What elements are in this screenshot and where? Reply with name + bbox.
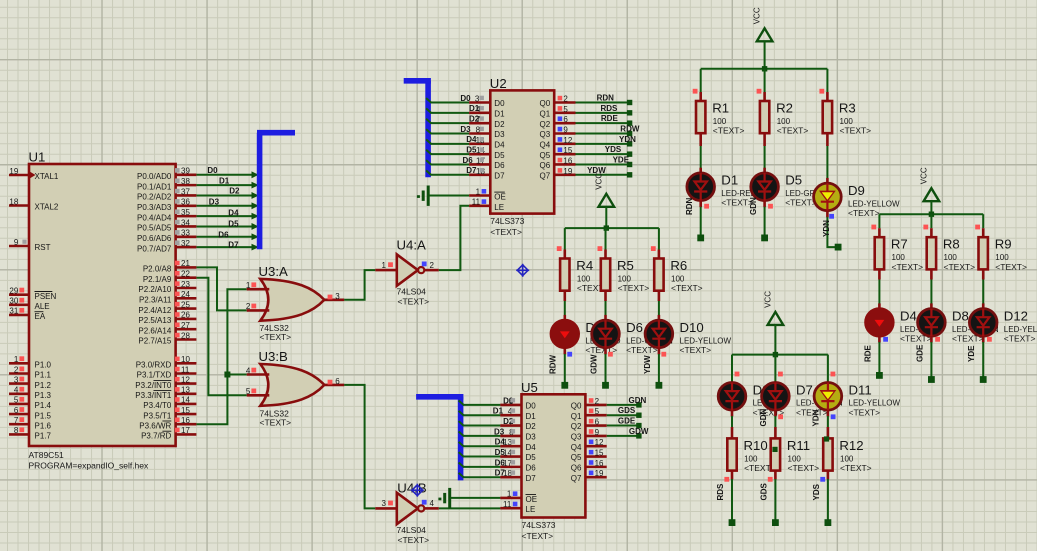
U5 pin Q4 (585, 445, 606, 448)
U2 pin Q5 (554, 153, 575, 156)
svg-text:6: 6 (563, 115, 568, 124)
svg-text:<TEXT>: <TEXT> (848, 208, 880, 218)
U5 pin Q5 (585, 455, 606, 458)
LED diode symbol (769, 383, 782, 411)
wire D9 cathode to terminal (826, 211, 829, 218)
svg-text:29: 29 (9, 287, 18, 296)
svg-text:RDE: RDE (601, 114, 619, 123)
U1 pin 30 ALE (9, 303, 29, 306)
U1 pin 36 P0.3/AD3 (176, 204, 197, 207)
wire R2 to D5 (763, 133, 766, 146)
wire rail to R6 (658, 228, 660, 249)
svg-text:12: 12 (563, 136, 572, 145)
svg-text:R4: R4 (576, 258, 593, 273)
svg-text:D3: D3 (526, 432, 537, 441)
svg-text:P2.1/A9: P2.1/A9 (143, 275, 172, 284)
svg-text:P1.4: P1.4 (35, 401, 52, 410)
U1 pin 27 P2.6/A14 (176, 328, 197, 331)
svg-text:12: 12 (595, 438, 604, 447)
wire bus to U5 D0 (463, 404, 500, 406)
terminal YDW (656, 382, 663, 389)
svg-text:R7: R7 (891, 237, 908, 252)
wire D11 cathode to R12 (827, 410, 830, 416)
svg-text:R1: R1 (712, 101, 729, 116)
U1 pin 1 P1.0 (9, 362, 29, 365)
svg-text:P0.0/AD0: P0.0/AD0 (137, 172, 172, 181)
U5 pin OE (500, 497, 521, 500)
svg-text:D2: D2 (229, 187, 240, 196)
svg-text:31: 31 (9, 307, 18, 316)
svg-text:P0.3/AD3: P0.3/AD3 (137, 203, 172, 212)
U5 Q1 net wire GDS (607, 414, 637, 416)
svg-text:P3.2/INT0: P3.2/INT0 (135, 381, 172, 390)
wire D10 cathode to terminal YDW (658, 348, 661, 355)
svg-text:YDW: YDW (643, 355, 652, 374)
svg-text:P3.5/T1: P3.5/T1 (143, 411, 172, 420)
svg-text:U2: U2 (490, 76, 507, 91)
wire U4:A output to U2 LE (439, 206, 469, 270)
LED circle (off) (751, 173, 779, 201)
wire rail to R9 (982, 214, 984, 228)
svg-text:D3: D3 (209, 198, 220, 207)
svg-text:13: 13 (181, 386, 190, 395)
LED diode symbol (821, 383, 834, 411)
svg-text:Q4: Q4 (540, 140, 551, 149)
U4:A output stub (424, 269, 439, 272)
svg-text:P0.5/AD5: P0.5/AD5 (137, 224, 172, 233)
svg-text:5: 5 (14, 396, 19, 405)
LED diode symbol (652, 320, 665, 348)
svg-text:D12: D12 (1004, 308, 1028, 323)
LED diode symbol (977, 309, 990, 337)
svg-text:GDS: GDS (760, 483, 769, 501)
resistor R7 body (875, 237, 884, 269)
ground symbol at U5 OE (448, 488, 451, 508)
wire R8 to D8 (930, 269, 933, 279)
svg-text:D11: D11 (849, 382, 872, 397)
wire rail to R4 (564, 228, 566, 249)
svg-text:GDN: GDN (759, 409, 768, 427)
svg-text:D6: D6 (526, 463, 537, 472)
U2 pin D1 (469, 112, 490, 115)
junction east rail (929, 212, 934, 217)
svg-text:LE: LE (526, 505, 536, 514)
wire D3 net (U1 P0.3 to data bus) (196, 205, 253, 207)
U4:B inversion bubble (418, 505, 424, 511)
svg-text:U1: U1 (29, 150, 46, 165)
svg-text:<TEXT>: <TEXT> (713, 126, 745, 136)
svg-text:11: 11 (181, 365, 190, 374)
U2 Q3 net wire RDW (576, 132, 628, 134)
svg-text:GDN: GDN (629, 396, 647, 405)
U1 pin 12 P3.2/INT0 (176, 382, 197, 385)
svg-text:19: 19 (595, 469, 604, 478)
svg-text:4: 4 (14, 386, 19, 395)
U1 pin 23 P2.2/A10 (176, 287, 197, 290)
U3:A output stub (324, 298, 344, 301)
wire bus to U2 D3 (431, 132, 470, 134)
svg-text:PSEN: PSEN (35, 292, 57, 301)
svg-text:5: 5 (246, 387, 251, 396)
svg-text:Q3: Q3 (571, 432, 582, 441)
svg-text:P3.7/RD: P3.7/RD (141, 432, 171, 441)
wire bus to U2 D7 (431, 174, 470, 176)
U1 pin 25 P2.4/A12 (176, 307, 197, 310)
LED circle (off) (762, 383, 790, 411)
wire bus to U2 D5 (431, 153, 470, 155)
bus segment arm to U5 (416, 394, 463, 400)
svg-text:D3: D3 (460, 125, 471, 134)
terminal YDE (980, 376, 987, 383)
svg-text:D9: D9 (848, 183, 865, 198)
LED diode symbol (694, 173, 707, 201)
svg-text:D4: D4 (494, 140, 505, 149)
svg-text:P2.5/A13: P2.5/A13 (138, 316, 171, 325)
origin marker (411, 484, 424, 497)
svg-text:Q7: Q7 (540, 171, 551, 180)
U1 pin 10 P3.0/RXD (176, 362, 197, 365)
svg-text:RDW: RDW (549, 354, 558, 374)
svg-text:37: 37 (181, 187, 190, 196)
resistor R4 body (560, 259, 569, 291)
wire ground to U5 OE (451, 497, 501, 499)
inverter U4:A 74LS04 input stub (375, 269, 397, 272)
wire R6 to D10 (658, 291, 661, 301)
wire R3 to D9 (826, 133, 829, 146)
svg-text:ALE: ALE (35, 302, 50, 311)
resistor R10 body (727, 438, 736, 470)
terminal YDS (825, 519, 832, 526)
svg-text:4: 4 (430, 499, 435, 508)
U3:A input stubs (247, 288, 270, 291)
svg-text:P1.6: P1.6 (35, 421, 52, 430)
U2 Q2 net wire RDE (576, 122, 628, 124)
U1 pin 32 P0.7/AD7 (176, 246, 197, 249)
svg-text:1: 1 (14, 355, 19, 364)
wire rail to D2 (731, 355, 733, 384)
wire bus to U2 D0 (431, 102, 470, 104)
U1 pin 13 P3.3/INT1 (176, 392, 197, 395)
U1 pin 21 P2.0/A8 (176, 266, 197, 269)
wire R7 to D4 (878, 269, 881, 279)
svg-text:2: 2 (563, 95, 568, 104)
svg-text:Q0: Q0 (540, 99, 551, 108)
svg-text:Q0: Q0 (571, 402, 582, 411)
svg-text:2: 2 (595, 397, 600, 406)
svg-text:D7: D7 (526, 474, 537, 483)
LED circle (off) (718, 383, 746, 411)
U2 pin D3 (469, 132, 490, 135)
svg-text:GDS: GDS (618, 406, 636, 415)
svg-text:VCC: VCC (594, 173, 603, 190)
svg-text:15: 15 (563, 146, 572, 155)
svg-text:23: 23 (181, 280, 190, 289)
svg-text:P1.5: P1.5 (35, 411, 52, 420)
svg-text:P1.1: P1.1 (35, 371, 52, 380)
U1 body AT89C51 (29, 164, 176, 446)
svg-text:P3.6/WR: P3.6/WR (139, 421, 171, 430)
svg-text:38: 38 (181, 177, 190, 186)
LED diode symbol (925, 309, 938, 337)
bus segment near U1 (vertical collector) (257, 133, 263, 250)
svg-text:P0.7/AD7: P0.7/AD7 (137, 244, 172, 253)
svg-text:2: 2 (430, 261, 435, 270)
svg-text:GDN: GDN (749, 197, 758, 215)
U1 pin 7 P1.6 (9, 423, 29, 426)
svg-text:Q3: Q3 (540, 130, 551, 139)
svg-text:RDN: RDN (597, 94, 615, 103)
svg-text:GDW: GDW (589, 354, 598, 374)
svg-text:74LS04: 74LS04 (397, 287, 427, 297)
U1 pin 2 P1.1 (9, 372, 29, 375)
wire VCC rail east (879, 213, 983, 215)
svg-text:3: 3 (382, 499, 387, 508)
svg-text:15: 15 (595, 449, 604, 458)
junction south rail (773, 352, 778, 357)
wire VCC rail west (565, 227, 659, 229)
svg-text:OE: OE (494, 193, 506, 202)
svg-text:OE: OE (526, 495, 538, 504)
svg-text:R6: R6 (670, 258, 687, 273)
svg-text:3: 3 (335, 292, 340, 301)
wire D1 net (U1 P0.1 to data bus) (196, 184, 253, 186)
svg-text:19: 19 (563, 167, 572, 176)
resistor R8 body (927, 237, 936, 269)
U1 pin 16 P3.6/WR (176, 423, 197, 426)
LED diode symbol (599, 320, 612, 348)
svg-text:21: 21 (181, 259, 190, 268)
wire bus to U5 D5 (463, 456, 500, 458)
wire bus to U5 D1 (463, 414, 500, 416)
svg-text:LE: LE (494, 203, 504, 212)
wire D1 cathode to terminal (699, 201, 702, 208)
resistor R6 body (654, 259, 663, 291)
U5 pin Q0 (585, 404, 606, 407)
svg-text:D4: D4 (228, 209, 239, 218)
junction WR/pin4 (224, 372, 230, 378)
U5 pin D1 (500, 414, 521, 417)
wire R5 to D6 (604, 291, 607, 301)
svg-text:RDS: RDS (601, 104, 619, 113)
wire D8 cathode to terminal GDE (930, 336, 933, 342)
U1 pin 4 P1.3 (9, 392, 29, 395)
U4:A triangle body (397, 254, 418, 285)
wire D12 cathode to terminal YDE (982, 336, 985, 342)
U2 pin D4 (469, 143, 490, 146)
svg-text:15: 15 (181, 406, 190, 415)
wire bus to U5 D7 (463, 476, 500, 478)
terminal GDE (928, 376, 935, 383)
U5 Q0 net wire GDN (607, 404, 637, 406)
svg-text:<TEXT>: <TEXT> (398, 297, 430, 307)
terminal GDN (761, 235, 768, 242)
svg-text:RDS: RDS (716, 483, 725, 501)
svg-text:9: 9 (595, 428, 600, 437)
wire VCC to rail (774, 325, 776, 355)
svg-text:P2.2/A10: P2.2/A10 (138, 285, 171, 294)
svg-text:5: 5 (595, 407, 600, 416)
resistor R2 body (760, 101, 769, 133)
wire D5 cathode to terminal (763, 201, 766, 208)
wire D6 net (U1 P0.6 to data bus) (196, 236, 253, 238)
wire bus to U5 D6 (463, 466, 500, 468)
svg-text:9: 9 (563, 125, 568, 134)
svg-text:3: 3 (14, 375, 19, 384)
svg-text:25: 25 (181, 300, 190, 309)
U2 pin Q0 (554, 101, 575, 104)
wire rail to R1 (700, 69, 702, 92)
svg-text:28: 28 (181, 331, 190, 340)
svg-text:P0.1/AD1: P0.1/AD1 (137, 182, 172, 191)
svg-text:U3:B: U3:B (259, 349, 289, 364)
U2 pin Q1 (554, 112, 575, 115)
svg-text:XTAL2: XTAL2 (35, 203, 59, 212)
svg-text:<TEXT>: <TEXT> (260, 332, 292, 342)
terminal GDS (772, 519, 779, 526)
wire D2 net (U1 P0.2 to data bus) (196, 194, 253, 196)
U4:B triangle body (397, 493, 418, 524)
U2 pin D2 (469, 122, 490, 125)
U5 pin D7 (500, 476, 521, 479)
resistor R11 body (771, 438, 780, 470)
terminal RDW (561, 382, 568, 389)
svg-text:P3.3/INT1: P3.3/INT1 (135, 391, 172, 400)
LED circle (off) (918, 309, 946, 337)
svg-text:Q5: Q5 (571, 453, 582, 462)
svg-text:<TEXT>: <TEXT> (840, 463, 872, 473)
U2 pin LE (469, 205, 490, 208)
svg-text:D1: D1 (526, 412, 537, 421)
wire ground to U2 OE (429, 195, 469, 197)
U1 pin 33 P0.6/AD6 (176, 235, 197, 238)
svg-text:<TEXT>: <TEXT> (260, 417, 292, 427)
svg-text:9: 9 (14, 238, 19, 247)
svg-text:GDE: GDE (915, 344, 924, 362)
svg-text:D0: D0 (494, 99, 505, 108)
svg-text:P2.6/A14: P2.6/A14 (138, 326, 171, 335)
svg-text:U4:A: U4:A (397, 238, 427, 253)
U2 pin Q2 (554, 122, 575, 125)
svg-text:2: 2 (246, 302, 251, 311)
svg-text:D6: D6 (626, 320, 643, 335)
U4:B output stub (424, 507, 439, 510)
U5 pin D5 (500, 455, 521, 458)
svg-text:YDS: YDS (605, 145, 622, 154)
svg-text:P3.4/T0: P3.4/T0 (143, 401, 172, 410)
U5 pin D3 (500, 435, 521, 438)
svg-text:74LS373: 74LS373 (490, 216, 524, 226)
svg-text:24: 24 (181, 290, 190, 299)
bus segment top arm to U2 (404, 78, 431, 84)
LED circle (lit red) (551, 320, 579, 348)
U5 pin D4 (500, 445, 521, 448)
svg-text:17: 17 (181, 426, 190, 435)
LED circle (lit yellow) (814, 383, 842, 411)
svg-text:8: 8 (14, 426, 19, 435)
U5 pin D2 (500, 424, 521, 427)
stray green node on R11 (772, 447, 777, 452)
wire D7 cathode to R11 (774, 410, 777, 416)
U5 pin Q3 (585, 435, 606, 438)
svg-text:Q5: Q5 (540, 151, 551, 160)
wire D6 cathode to terminal GDW (604, 348, 607, 355)
wire VCC rail north (701, 68, 828, 70)
U1 pin 31 EA (9, 314, 29, 317)
svg-text:1: 1 (507, 490, 512, 499)
wire bus to U5 D4 (463, 445, 500, 447)
svg-text:GDW: GDW (629, 427, 649, 436)
resistor R1 body (696, 101, 705, 133)
svg-text:<TEXT>: <TEXT> (522, 531, 554, 541)
svg-text:D3: D3 (494, 130, 505, 139)
svg-text:D6: D6 (494, 161, 505, 170)
svg-text:<TEXT>: <TEXT> (398, 535, 430, 545)
svg-text:6: 6 (335, 377, 340, 386)
svg-text:VCC: VCC (763, 291, 772, 308)
wire D2 cathode to R10 (731, 410, 734, 416)
LED diode symbol (725, 383, 738, 411)
svg-text:P2.3/A11: P2.3/A11 (139, 296, 172, 305)
svg-text:P2.4/A12: P2.4/A12 (138, 306, 171, 315)
svg-text:R2: R2 (776, 101, 793, 116)
svg-text:<TEXT>: <TEXT> (618, 283, 650, 293)
svg-text:P1.0: P1.0 (35, 361, 52, 370)
U1 pin 17 P3.7/RD (176, 433, 197, 436)
svg-text:<TEXT>: <TEXT> (995, 262, 1027, 272)
bus segment top arm (257, 130, 295, 136)
svg-text:39: 39 (181, 167, 190, 176)
svg-text:5: 5 (563, 105, 568, 114)
svg-text:18: 18 (9, 197, 18, 206)
wire D7 net (U1 P0.7 to data bus) (196, 246, 253, 248)
bus segment to U5 (vertical) (458, 397, 464, 481)
svg-text:YDN: YDN (619, 135, 636, 144)
or-gate U3:A 74LS32 body (260, 279, 324, 321)
svg-text:R5: R5 (617, 258, 634, 273)
U2 Q5 net wire YDS (576, 153, 628, 155)
terminal RDS (729, 519, 736, 526)
wire rail to R2 (764, 69, 766, 92)
resistor R12 body (823, 438, 832, 470)
junction north rail (762, 66, 767, 71)
resistor R3 body (823, 101, 832, 133)
svg-text:<TEXT>: <TEXT> (849, 407, 881, 417)
U2 Q4 net wire YDN (576, 143, 628, 145)
svg-text:4: 4 (246, 366, 251, 375)
svg-text:D4: D4 (900, 308, 917, 323)
svg-text:P1.2: P1.2 (35, 381, 52, 390)
U2 pin D0 (469, 101, 490, 104)
wire rail to R7 (878, 214, 880, 228)
wire R9 to D12 (982, 269, 985, 279)
wire rail to D11 (827, 355, 829, 384)
LED circle (off) (687, 173, 715, 201)
svg-text:12: 12 (181, 375, 190, 384)
wire U3:B output to U4:B input (344, 385, 375, 509)
bus segment to U2 (vertical) (425, 81, 431, 177)
U2 pin Q6 (554, 163, 575, 166)
wire R1 to D1 (699, 133, 702, 146)
svg-text:RDE: RDE (863, 344, 872, 362)
stray green node on R12 lead (824, 436, 829, 441)
svg-text:D5: D5 (494, 151, 505, 160)
latch U5 74LS373 body (522, 394, 586, 517)
U2 pin Q7 (554, 174, 575, 177)
svg-text:1: 1 (246, 281, 251, 290)
or-gate U3:B 74LS32 body (260, 364, 324, 406)
LED diode symbol (758, 173, 771, 201)
svg-text:R11: R11 (787, 438, 810, 453)
